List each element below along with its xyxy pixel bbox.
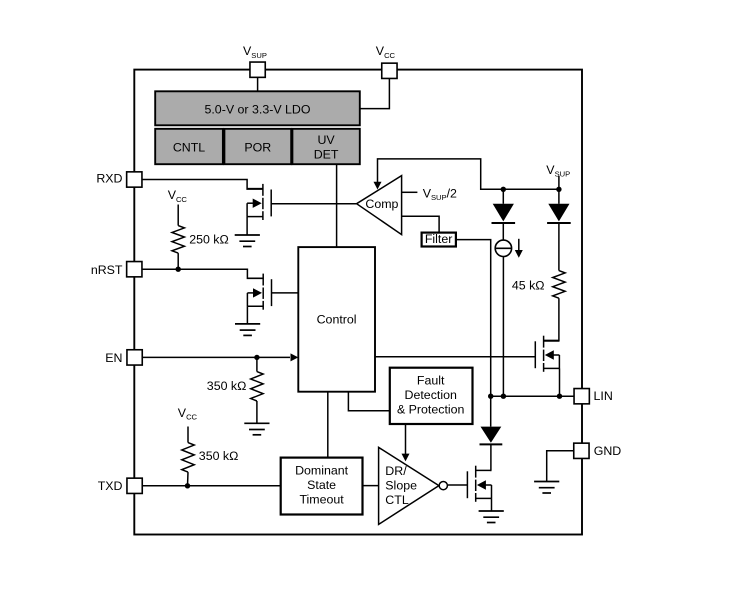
- svg-text:250 kΩ: 250 kΩ: [189, 233, 229, 247]
- svg-text:350 kΩ: 350 kΩ: [199, 449, 239, 463]
- svg-text:Fault: Fault: [417, 374, 445, 388]
- svg-text:Dominant: Dominant: [295, 464, 349, 478]
- svg-text:GND: GND: [594, 444, 622, 458]
- svg-text:UV: UV: [317, 133, 335, 147]
- svg-text:Comp: Comp: [365, 197, 398, 211]
- svg-text:TXD: TXD: [98, 479, 123, 493]
- svg-text:CNTL: CNTL: [173, 141, 205, 155]
- svg-text:State: State: [307, 478, 336, 492]
- svg-text:DR/: DR/: [385, 464, 407, 478]
- svg-text:Slope: Slope: [385, 479, 417, 493]
- svg-text:Timeout: Timeout: [299, 492, 344, 506]
- svg-text:45 kΩ: 45 kΩ: [512, 278, 545, 292]
- svg-text:nRST: nRST: [91, 263, 123, 277]
- svg-text:Filter: Filter: [425, 232, 453, 246]
- svg-text:DET: DET: [314, 148, 339, 162]
- svg-text:350 kΩ: 350 kΩ: [207, 379, 247, 393]
- svg-text:EN: EN: [105, 351, 122, 365]
- svg-text:POR: POR: [244, 141, 271, 155]
- svg-text:& Protection: & Protection: [397, 402, 465, 416]
- svg-text:CTL: CTL: [385, 493, 409, 507]
- svg-text:5.0-V or 3.3-V LDO: 5.0-V or 3.3-V LDO: [204, 103, 310, 117]
- svg-text:Control: Control: [317, 312, 357, 326]
- svg-text:LIN: LIN: [594, 389, 613, 403]
- svg-text:RXD: RXD: [96, 172, 122, 186]
- svg-text:Detection: Detection: [405, 388, 457, 402]
